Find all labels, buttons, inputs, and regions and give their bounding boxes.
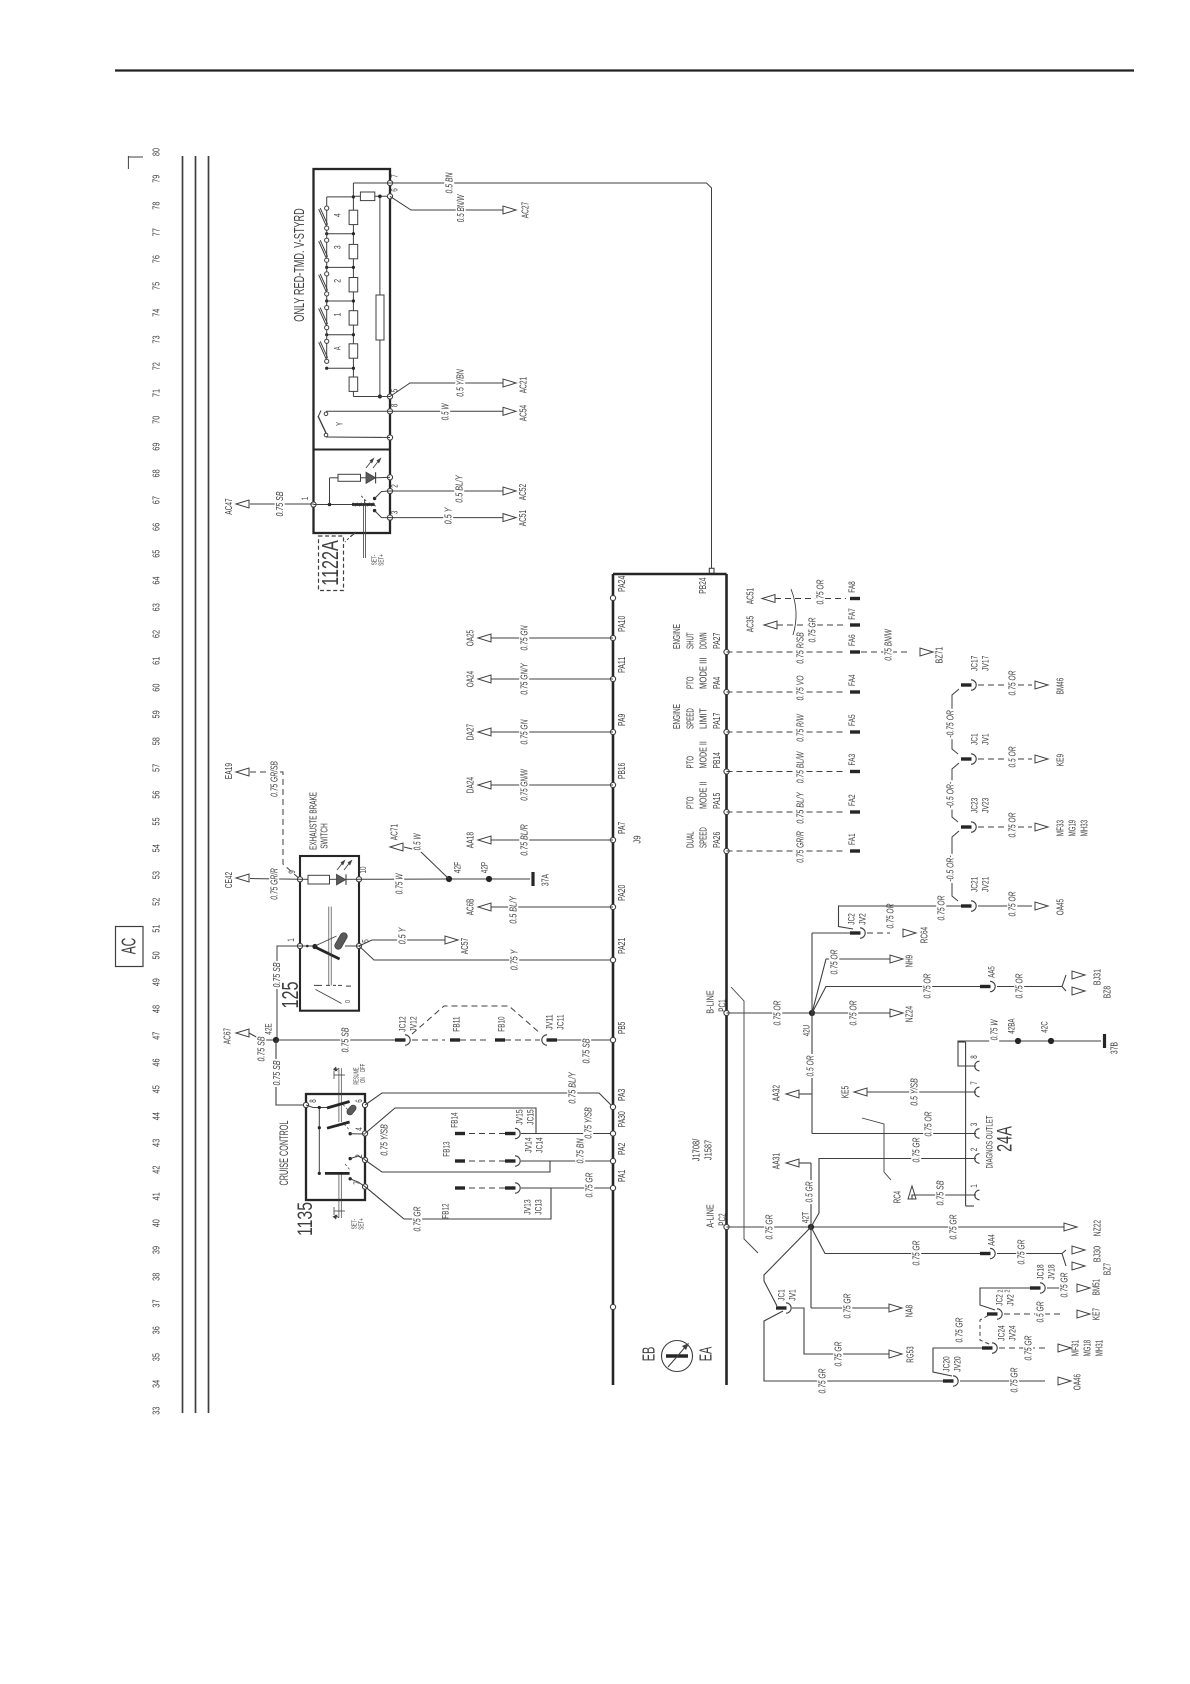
svg-text:0.75 Y/SB: 0.75 Y/SB xyxy=(584,1107,595,1139)
svg-text:AC: AC xyxy=(119,938,141,955)
svg-text:OA24: OA24 xyxy=(466,671,477,688)
svg-text:AC51: AC51 xyxy=(518,510,529,527)
svg-text:SET-: SET- xyxy=(372,554,379,565)
svg-text:PB14: PB14 xyxy=(712,752,723,769)
svg-text:AC21: AC21 xyxy=(519,377,530,394)
svg-text:57: 57 xyxy=(152,764,163,772)
svg-text:0.75 GR: 0.75 GR xyxy=(949,1214,960,1239)
svg-text:MF33: MF33 xyxy=(1056,820,1067,837)
svg-text:0.75 GR: 0.75 GR xyxy=(912,1137,923,1162)
svg-text:CRUISE CONTROL: CRUISE CONTROL xyxy=(278,1120,291,1185)
svg-text:PA10: PA10 xyxy=(617,615,628,632)
svg-text:JV14: JV14 xyxy=(523,1137,534,1152)
svg-text:54: 54 xyxy=(152,844,163,852)
svg-text:59: 59 xyxy=(152,710,163,718)
svg-text:42C: 42C xyxy=(1039,1021,1050,1032)
svg-text:0.5 W: 0.5 W xyxy=(413,833,424,851)
svg-text:MG18: MG18 xyxy=(1083,1340,1094,1356)
svg-text:JC1: JC1 xyxy=(969,733,980,745)
svg-text:FA8: FA8 xyxy=(847,581,858,593)
svg-text:NH9: NH9 xyxy=(905,955,916,967)
svg-text:JV13: JV13 xyxy=(522,1199,533,1214)
svg-text:EXHAUSTE BRAKE: EXHAUSTE BRAKE xyxy=(309,792,320,850)
svg-text:0.75 GN: 0.75 GN xyxy=(520,719,531,744)
svg-text:0.75 GR/SB: 0.75 GR/SB xyxy=(270,761,281,797)
svg-text:0.75 GN/Y: 0.75 GN/Y xyxy=(520,662,531,694)
svg-text:76: 76 xyxy=(152,255,163,263)
svg-text:-0.5 OR-: -0.5 OR- xyxy=(946,781,957,808)
svg-text:1: 1 xyxy=(969,1184,979,1188)
svg-text:DOWN: DOWN xyxy=(699,632,710,649)
svg-text:JC2: JC2 xyxy=(994,1294,1005,1306)
svg-text:43: 43 xyxy=(152,1139,163,1147)
svg-text:J1587: J1587 xyxy=(704,1140,715,1160)
svg-text:70: 70 xyxy=(152,416,163,424)
svg-text:56: 56 xyxy=(152,790,163,798)
svg-text:0.75 SB: 0.75 SB xyxy=(257,1036,268,1061)
svg-text:47: 47 xyxy=(152,1031,163,1039)
svg-text:AA4: AA4 xyxy=(986,1234,997,1246)
svg-text:JV1: JV1 xyxy=(787,1289,798,1301)
svg-text:0.75 Y/SB: 0.75 Y/SB xyxy=(380,1124,391,1156)
svg-text:JV18: JV18 xyxy=(1046,1264,1057,1279)
svg-text:PB16: PB16 xyxy=(617,762,628,779)
svg-text:PA30: PA30 xyxy=(617,1111,628,1128)
svg-text:0.75 SB: 0.75 SB xyxy=(272,962,283,987)
svg-text:0.5 BL/Y: 0.5 BL/Y xyxy=(509,895,520,923)
svg-text:37B: 37B xyxy=(1110,1042,1121,1054)
svg-text:PTO: PTO xyxy=(685,796,696,809)
svg-text:0.75 W: 0.75 W xyxy=(990,1019,1001,1041)
svg-text:0.75 OR: 0.75 OR xyxy=(1008,670,1019,695)
svg-text:2: 2 xyxy=(332,279,343,283)
svg-text:FB14: FB14 xyxy=(449,1112,460,1127)
svg-text:52: 52 xyxy=(152,898,163,906)
svg-text:74: 74 xyxy=(152,308,163,316)
svg-text:CE42: CE42 xyxy=(224,872,235,889)
svg-text:0.75 GR: 0.75 GR xyxy=(818,1368,829,1393)
svg-text:AC54: AC54 xyxy=(519,405,530,422)
svg-text:PC2: PC2 xyxy=(718,1213,729,1226)
svg-text:1: 1 xyxy=(300,497,310,501)
svg-text:55: 55 xyxy=(152,817,163,825)
svg-text:PB24: PB24 xyxy=(698,577,709,594)
svg-text:77: 77 xyxy=(152,228,163,236)
svg-text:JC23: JC23 xyxy=(969,798,980,813)
svg-text:69: 69 xyxy=(152,442,163,450)
svg-text:BM51: BM51 xyxy=(1092,1279,1103,1295)
svg-text:B-LINE: B-LINE xyxy=(706,990,717,1014)
svg-text:FA4: FA4 xyxy=(847,674,858,686)
svg-text:-0.75 OR: -0.75 OR xyxy=(946,710,957,738)
svg-text:OFF: OFF xyxy=(360,1064,367,1073)
svg-text:DUAL: DUAL xyxy=(685,831,696,848)
svg-text:RG53: RG53 xyxy=(906,1346,917,1362)
svg-text:-0.5 OR-: -0.5 OR- xyxy=(946,855,957,882)
svg-text:JV2: JV2 xyxy=(857,913,868,925)
svg-text:33: 33 xyxy=(152,1406,163,1414)
svg-text:SET+: SET+ xyxy=(379,554,386,565)
svg-text:3: 3 xyxy=(332,245,343,249)
svg-text:JV23: JV23 xyxy=(980,798,991,813)
svg-text:RC64: RC64 xyxy=(920,927,931,944)
svg-text:PTO: PTO xyxy=(685,676,696,689)
svg-text:0.75 BL/W: 0.75 BL/W xyxy=(796,751,807,784)
svg-text:0.75 R/W: 0.75 R/W xyxy=(796,713,807,741)
svg-text:49: 49 xyxy=(152,978,163,986)
svg-text:FB12: FB12 xyxy=(440,1203,451,1218)
svg-text:FA3: FA3 xyxy=(847,754,858,766)
svg-text:39: 39 xyxy=(152,1246,163,1254)
svg-text:KE9: KE9 xyxy=(1056,754,1067,767)
svg-text:JC18: JC18 xyxy=(1035,1264,1046,1279)
svg-text:0.75 GR: 0.75 GR xyxy=(765,1214,776,1239)
svg-text:PA15: PA15 xyxy=(712,792,723,809)
svg-text:SHUT: SHUT xyxy=(685,632,696,649)
svg-text:0.75 GR: 0.75 GR xyxy=(1060,1272,1071,1297)
svg-text:1122A: 1122A xyxy=(317,540,343,586)
svg-text:PA27: PA27 xyxy=(712,632,723,649)
svg-text:0.75 GR: 0.75 GR xyxy=(955,1317,966,1342)
svg-text:PA24: PA24 xyxy=(617,575,628,592)
svg-text:36: 36 xyxy=(152,1326,163,1334)
svg-text:I: I xyxy=(344,985,353,988)
svg-text:JV2: JV2 xyxy=(1005,1294,1016,1306)
svg-text:MH33: MH33 xyxy=(1080,820,1091,836)
svg-text:0.75 OR: 0.75 OR xyxy=(1008,891,1019,916)
svg-text:DA24: DA24 xyxy=(466,777,477,794)
svg-text:0.5 BN: 0.5 BN xyxy=(445,172,456,193)
svg-text:72: 72 xyxy=(152,362,163,370)
svg-text:Y: Y xyxy=(334,422,345,426)
svg-text:65: 65 xyxy=(152,549,163,557)
svg-text:BZ7: BZ7 xyxy=(1103,1263,1114,1276)
svg-text:PTO: PTO xyxy=(685,756,696,769)
svg-text:SPEED: SPEED xyxy=(699,827,710,848)
svg-text:0.5 Y: 0.5 Y xyxy=(398,927,409,945)
svg-text:JC13: JC13 xyxy=(533,1199,544,1214)
svg-text:3: 3 xyxy=(969,1123,979,1127)
svg-text:JC14: JC14 xyxy=(534,1137,545,1152)
svg-text:2: 2 xyxy=(1003,1290,1012,1293)
svg-text:0.75 GR: 0.75 GR xyxy=(843,1293,854,1318)
svg-text:0.75 SB: 0.75 SB xyxy=(341,1027,352,1052)
svg-text:0.75 GR: 0.75 GR xyxy=(834,1341,845,1366)
svg-text:42: 42 xyxy=(152,1165,163,1173)
svg-text:42U: 42U xyxy=(801,1025,812,1036)
svg-text:24A: 24A xyxy=(992,1126,1017,1152)
svg-text:AA5: AA5 xyxy=(986,966,997,978)
svg-text:0.75 R/SB: 0.75 R/SB xyxy=(796,632,807,664)
svg-text:J1708/: J1708/ xyxy=(692,1139,703,1162)
svg-text:0.75 OR: 0.75 OR xyxy=(830,949,841,974)
svg-text:DA27: DA27 xyxy=(466,724,477,741)
svg-text:AC67: AC67 xyxy=(223,1028,234,1045)
svg-text:79: 79 xyxy=(152,175,163,183)
svg-text:FB10: FB10 xyxy=(496,1016,507,1031)
svg-text:62: 62 xyxy=(152,630,163,638)
svg-text:AC51: AC51 xyxy=(746,588,757,605)
svg-text:EA: EA xyxy=(695,1347,715,1362)
svg-text:JC12: JC12 xyxy=(397,1016,408,1031)
svg-text:JC21: JC21 xyxy=(969,877,980,892)
svg-text:0.75 VO: 0.75 VO xyxy=(796,675,807,700)
svg-text:0.75 SB: 0.75 SB xyxy=(936,1180,947,1205)
svg-text:BZ8: BZ8 xyxy=(1103,986,1114,999)
svg-text:FA7: FA7 xyxy=(847,608,858,620)
svg-text:0.75 BL/Y: 0.75 BL/Y xyxy=(568,1071,579,1103)
svg-text:1135: 1135 xyxy=(292,1202,317,1236)
svg-text:7: 7 xyxy=(390,174,400,178)
svg-text:OA46: OA46 xyxy=(1073,1374,1084,1391)
svg-text:0.75 GN/W: 0.75 GN/W xyxy=(520,768,531,800)
svg-text:PA17: PA17 xyxy=(712,712,723,729)
svg-text:0.75 BL/Y: 0.75 BL/Y xyxy=(796,791,807,823)
svg-text:0.5 Y/SB: 0.5 Y/SB xyxy=(910,1078,921,1106)
svg-text:AC47: AC47 xyxy=(224,498,235,515)
svg-text:0.75 Y: 0.75 Y xyxy=(510,949,521,971)
svg-text:PA26: PA26 xyxy=(712,831,723,848)
svg-text:1: 1 xyxy=(286,938,296,942)
svg-text:0.75 OR: 0.75 OR xyxy=(1008,812,1019,837)
svg-text:MODE II: MODE II xyxy=(699,741,710,768)
svg-text:0.75 OR: 0.75 OR xyxy=(816,579,827,604)
svg-text:AC71: AC71 xyxy=(390,824,401,841)
svg-text:ON: ON xyxy=(360,1077,367,1083)
svg-text:FB13: FB13 xyxy=(441,1141,452,1156)
svg-text:JC17: JC17 xyxy=(969,656,980,671)
svg-text:RC4: RC4 xyxy=(893,1191,904,1203)
svg-text:42E: 42E xyxy=(263,1023,274,1034)
svg-text:0.5 Y: 0.5 Y xyxy=(444,507,455,525)
svg-text:0.75 BN: 0.75 BN xyxy=(576,1138,587,1163)
svg-text:40: 40 xyxy=(152,1219,163,1227)
svg-text:64: 64 xyxy=(152,576,163,584)
svg-text:EA19: EA19 xyxy=(224,763,235,780)
svg-text:JC1: JC1 xyxy=(776,1289,787,1301)
svg-text:66: 66 xyxy=(152,523,163,531)
svg-text:JV24: JV24 xyxy=(1007,1325,1018,1340)
svg-text:SET+: SET+ xyxy=(359,1218,366,1229)
svg-text:A-LINE: A-LINE xyxy=(706,1204,717,1228)
svg-text:JV17: JV17 xyxy=(980,656,991,671)
svg-text:0.75 OR: 0.75 OR xyxy=(849,1000,860,1025)
svg-text:0.5 BL/Y: 0.5 BL/Y xyxy=(455,474,466,502)
svg-text:80: 80 xyxy=(152,148,163,156)
svg-text:0: 0 xyxy=(343,1000,352,1003)
svg-text:JV21: JV21 xyxy=(980,877,991,892)
svg-text:41: 41 xyxy=(152,1192,163,1200)
svg-text:AA32: AA32 xyxy=(772,1085,783,1102)
svg-text:7: 7 xyxy=(969,1081,979,1085)
svg-text:0.75 OR: 0.75 OR xyxy=(886,903,897,928)
svg-text:42T: 42T xyxy=(800,1212,811,1224)
svg-text:JC15: JC15 xyxy=(525,1109,536,1124)
svg-text:4: 4 xyxy=(354,1127,364,1131)
svg-text:48: 48 xyxy=(152,1005,163,1013)
svg-text:PA4: PA4 xyxy=(712,676,723,689)
svg-text:10: 10 xyxy=(358,866,368,873)
svg-text:JV15: JV15 xyxy=(514,1109,525,1124)
svg-text:0.75 OR: 0.75 OR xyxy=(1015,973,1026,998)
svg-text:SWITCH: SWITCH xyxy=(320,823,331,849)
svg-text:AC27: AC27 xyxy=(521,202,532,219)
svg-text:KE5: KE5 xyxy=(841,1086,852,1099)
svg-text:0.75 OR: 0.75 OR xyxy=(937,895,948,920)
svg-text:AC35: AC35 xyxy=(746,616,757,633)
svg-text:3: 3 xyxy=(390,511,400,515)
svg-text:FB11: FB11 xyxy=(451,1016,462,1031)
svg-text:42F: 42F xyxy=(452,862,463,874)
svg-text:0.5 W: 0.5 W xyxy=(441,403,452,421)
svg-text:JC11: JC11 xyxy=(555,1014,566,1029)
svg-text:42BA: 42BA xyxy=(1006,1018,1017,1034)
svg-text:MODE III: MODE III xyxy=(699,658,710,690)
svg-text:JC24: JC24 xyxy=(996,1325,1007,1340)
svg-text:68: 68 xyxy=(152,469,163,477)
svg-text:FA1: FA1 xyxy=(847,833,858,845)
svg-text:MG19: MG19 xyxy=(1068,820,1079,836)
svg-text:44: 44 xyxy=(152,1112,163,1120)
svg-text:0.75 W: 0.75 W xyxy=(395,873,406,895)
svg-text:61: 61 xyxy=(152,657,163,665)
svg-text:PA21: PA21 xyxy=(617,937,628,954)
svg-text:PA9: PA9 xyxy=(617,713,628,726)
svg-text:60: 60 xyxy=(152,683,163,691)
svg-text:MODE II: MODE II xyxy=(699,782,710,809)
svg-text:4: 4 xyxy=(332,213,343,217)
svg-text:8: 8 xyxy=(390,404,400,408)
svg-text:1: 1 xyxy=(332,313,343,317)
svg-text:PA11: PA11 xyxy=(617,656,628,673)
svg-text:0.75 SB: 0.75 SB xyxy=(272,1060,283,1085)
svg-text:PA1: PA1 xyxy=(617,1169,628,1182)
svg-text:SPEED: SPEED xyxy=(685,708,696,729)
svg-text:FA6: FA6 xyxy=(847,634,858,646)
svg-text:50: 50 xyxy=(152,951,163,959)
svg-text:FA5: FA5 xyxy=(847,714,858,726)
svg-text:5: 5 xyxy=(390,389,400,393)
svg-text:0.5 Y/BN: 0.5 Y/BN xyxy=(456,369,467,397)
svg-text:0.75 GR: 0.75 GR xyxy=(912,1240,923,1265)
svg-text:2: 2 xyxy=(390,484,400,488)
svg-text:JV20: JV20 xyxy=(952,1356,963,1371)
svg-text:BJ31: BJ31 xyxy=(1093,969,1104,986)
svg-text:AC57: AC57 xyxy=(460,938,471,955)
svg-text:MH31: MH31 xyxy=(1095,1340,1106,1356)
svg-text:ENGINE: ENGINE xyxy=(672,624,683,649)
svg-text:AA18: AA18 xyxy=(466,832,477,849)
svg-text:0.75 BN/W: 0.75 BN/W xyxy=(884,628,895,660)
svg-text:9: 9 xyxy=(287,870,297,874)
svg-text:8: 8 xyxy=(308,1099,318,1103)
svg-text:A: A xyxy=(332,346,343,350)
svg-text:0.5 BN/W: 0.5 BN/W xyxy=(456,194,467,222)
svg-text:JV11: JV11 xyxy=(544,1014,555,1029)
svg-text:6: 6 xyxy=(390,188,400,192)
svg-text:0.75 GR: 0.75 GR xyxy=(413,1206,424,1231)
svg-text:JV12: JV12 xyxy=(408,1016,419,1031)
svg-text:35: 35 xyxy=(152,1353,163,1361)
svg-text:PA7: PA7 xyxy=(617,821,628,834)
svg-text:0.5 OR: 0.5 OR xyxy=(1008,746,1019,767)
svg-text:73: 73 xyxy=(152,335,163,343)
svg-text:0.75 OR: 0.75 OR xyxy=(924,1111,935,1136)
svg-text:NA8: NA8 xyxy=(905,1305,916,1318)
svg-text:0.75 OR: 0.75 OR xyxy=(773,1000,784,1025)
svg-text:AC52: AC52 xyxy=(518,484,529,501)
svg-text:BM46: BM46 xyxy=(1056,678,1067,694)
svg-text:JC2: JC2 xyxy=(846,913,857,925)
svg-text:63: 63 xyxy=(152,603,163,611)
svg-text:78: 78 xyxy=(152,201,163,209)
svg-text:37A: 37A xyxy=(541,874,552,886)
svg-text:SET-: SET- xyxy=(352,1218,359,1229)
svg-text:0.75 GR: 0.75 GR xyxy=(1010,1367,1021,1392)
svg-text:2: 2 xyxy=(969,1148,979,1152)
svg-text:FA2: FA2 xyxy=(847,794,858,806)
svg-text:0.75 GR: 0.75 GR xyxy=(808,617,819,642)
svg-text:BZ71: BZ71 xyxy=(935,647,946,664)
svg-text:0.5 OR: 0.5 OR xyxy=(806,1055,817,1076)
svg-text:6: 6 xyxy=(354,1099,364,1103)
svg-text:0.75 BL/R: 0.75 BL/R xyxy=(520,824,531,856)
svg-text:0.75 GR: 0.75 GR xyxy=(585,1172,596,1197)
svg-text:AC6B: AC6B xyxy=(466,899,477,916)
svg-text:75: 75 xyxy=(152,282,163,290)
svg-text:0.75 SB: 0.75 SB xyxy=(275,491,286,516)
svg-text:34: 34 xyxy=(152,1380,163,1388)
svg-text:J9: J9 xyxy=(633,835,644,843)
svg-text:MF31: MF31 xyxy=(1071,1340,1082,1357)
svg-text:0.75 GR/R: 0.75 GR/R xyxy=(796,831,807,863)
svg-text:37: 37 xyxy=(152,1299,163,1307)
svg-text:PC1: PC1 xyxy=(718,999,729,1012)
svg-text:AA31: AA31 xyxy=(772,1153,783,1170)
svg-text:PA20: PA20 xyxy=(617,884,628,901)
svg-text:ENGINE: ENGINE xyxy=(672,704,683,729)
svg-text:45: 45 xyxy=(152,1085,163,1093)
svg-text:EB: EB xyxy=(638,1347,658,1362)
svg-text:0.75 GR/R: 0.75 GR/R xyxy=(270,868,281,900)
svg-text:PB5: PB5 xyxy=(617,1021,628,1034)
svg-text:0.75 GN: 0.75 GN xyxy=(520,625,531,650)
svg-text:NZ22: NZ22 xyxy=(1093,1220,1104,1237)
svg-text:53: 53 xyxy=(152,871,163,879)
svg-text:JV1: JV1 xyxy=(980,733,991,745)
svg-text:ONLY RED-TMD. V-STYRD: ONLY RED-TMD. V-STYRD xyxy=(292,208,308,321)
svg-text:LIMIT: LIMIT xyxy=(699,708,710,729)
svg-text:0.75 GR: 0.75 GR xyxy=(1017,1239,1028,1264)
svg-text:0.5 GR: 0.5 GR xyxy=(1036,1301,1047,1322)
svg-text:8: 8 xyxy=(969,1055,979,1059)
svg-text:42P: 42P xyxy=(479,862,490,873)
svg-text:71: 71 xyxy=(152,389,163,397)
svg-text:0.75 GR: 0.75 GR xyxy=(1024,1335,1035,1360)
svg-text:OA45: OA45 xyxy=(1056,899,1067,916)
svg-text:OA25: OA25 xyxy=(466,630,477,647)
svg-text:38: 38 xyxy=(152,1273,163,1281)
svg-text:58: 58 xyxy=(152,737,163,745)
svg-text:67: 67 xyxy=(152,496,163,504)
svg-text:PA3: PA3 xyxy=(617,1088,628,1101)
svg-text:KE7: KE7 xyxy=(1092,1308,1103,1321)
svg-text:51: 51 xyxy=(152,924,163,932)
svg-text:46: 46 xyxy=(152,1058,163,1066)
svg-text:BJ30: BJ30 xyxy=(1093,1246,1104,1263)
svg-text:NZ24: NZ24 xyxy=(905,1006,916,1023)
svg-text:0.5 GR: 0.5 GR xyxy=(805,1181,816,1202)
